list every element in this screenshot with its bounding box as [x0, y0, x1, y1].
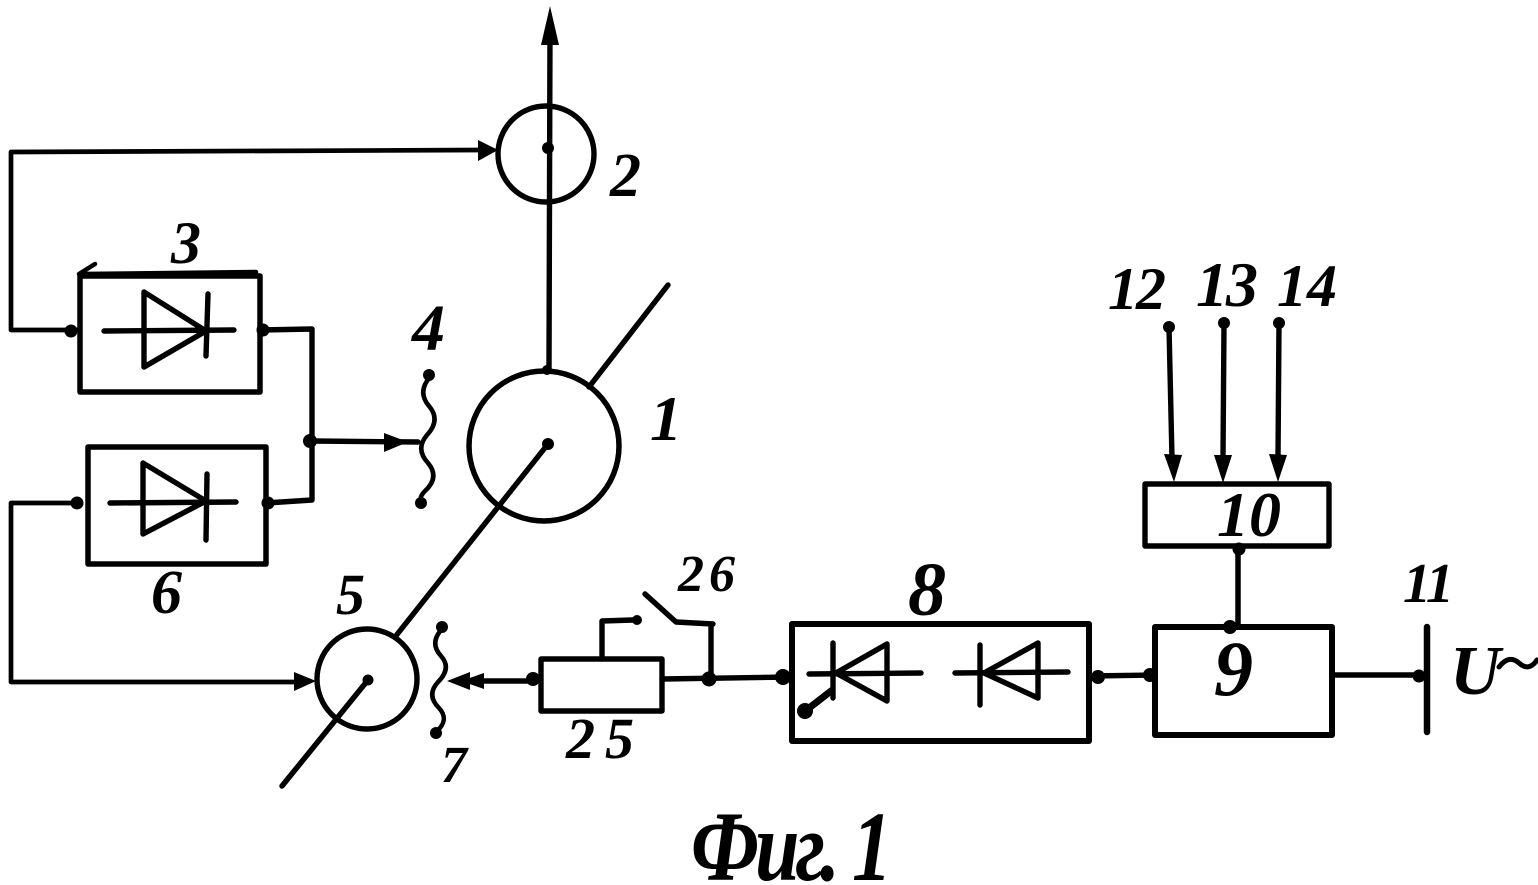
svg-text:9: 9: [1214, 625, 1253, 712]
svg-text:U: U: [1450, 633, 1504, 710]
svg-text:Фиг. 1: Фиг. 1: [691, 791, 888, 885]
svg-text:7: 7: [441, 737, 469, 794]
svg-text:13: 13: [1196, 249, 1257, 320]
svg-text:14: 14: [1277, 253, 1337, 319]
svg-text:26: 26: [677, 546, 740, 603]
svg-text:4: 4: [410, 292, 445, 365]
svg-text:12: 12: [1108, 256, 1165, 322]
svg-text:10: 10: [1217, 479, 1281, 550]
svg-text:3: 3: [170, 210, 201, 276]
svg-text:25: 25: [565, 706, 644, 771]
svg-text:5: 5: [336, 562, 365, 627]
svg-text:2: 2: [609, 142, 641, 210]
svg-text:6: 6: [151, 559, 182, 627]
svg-text:11: 11: [1403, 553, 1452, 615]
svg-text:8: 8: [908, 548, 946, 632]
svg-text:1: 1: [650, 383, 682, 454]
